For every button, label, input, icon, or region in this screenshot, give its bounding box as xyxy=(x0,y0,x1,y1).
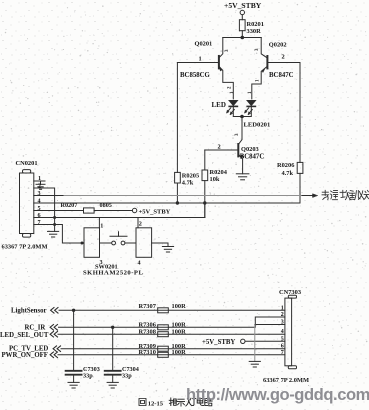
svg-text:Q0202: Q0202 xyxy=(269,42,287,49)
wire +5V to CN7303 pin5 xyxy=(245,340,285,342)
svg-text:33p: 33p xyxy=(83,373,93,380)
CN7303 pin 3 wire to ground xyxy=(255,324,285,326)
resistor R7309 100R xyxy=(158,346,169,351)
svg-text:PWR_ON_OFF: PWR_ON_OFF xyxy=(2,352,48,359)
svg-text:Q0203: Q0203 xyxy=(241,146,259,153)
svg-text:RC_IR: RC_IR xyxy=(25,324,46,331)
connector CN0201 xyxy=(16,160,38,237)
node junction below R0201 xyxy=(241,36,245,40)
svg-text:330R: 330R xyxy=(247,28,262,35)
node R0205 to pin4 xyxy=(176,201,179,204)
svg-text:6: 6 xyxy=(281,344,284,350)
svg-text:http://www.go-gddq.com: http://www.go-gddq.com xyxy=(186,385,369,404)
svg-text:2: 2 xyxy=(139,221,142,228)
svg-text:1: 1 xyxy=(281,305,284,311)
svg-text:4: 4 xyxy=(281,329,284,335)
svg-text:R0204: R0204 xyxy=(210,169,228,176)
power terminal +5V_STBY xyxy=(240,10,244,14)
svg-text:R0206: R0206 xyxy=(277,162,295,169)
svg-text:R0207: R0207 xyxy=(61,202,78,209)
transistor Q0203 BC847C (NPN) xyxy=(238,144,264,174)
svg-text:BC858CG: BC858CG xyxy=(180,72,211,79)
svg-text:R7310: R7310 xyxy=(139,349,156,356)
CN0201 pin 1 stub xyxy=(34,180,45,182)
svg-text:63367 7P 2.0MM: 63367 7P 2.0MM xyxy=(263,377,309,384)
svg-text:100R: 100R xyxy=(172,321,187,328)
ground below C7303 xyxy=(68,382,79,388)
ground at CN0201 pin 1 xyxy=(36,181,45,189)
node pin7 on ground rail xyxy=(53,223,56,226)
svg-text:Q0201: Q0201 xyxy=(195,41,213,48)
wire base Q0202, pin 2 xyxy=(267,62,300,64)
svg-text:4.7k: 4.7k xyxy=(282,170,294,177)
svg-text:2: 2 xyxy=(218,143,221,150)
svg-text:+5V_STBY: +5V_STBY xyxy=(202,339,235,346)
wire R0201 to node xyxy=(241,31,243,38)
resistor R0204 10k xyxy=(204,150,206,170)
node at switch pin1 side xyxy=(81,242,84,245)
capacitor C7304 33p xyxy=(105,327,139,382)
svg-text:R7307: R7307 xyxy=(139,303,157,310)
wire LED_SEL_OUT line xyxy=(58,333,285,335)
node R0204 to pin4 xyxy=(203,201,206,204)
svg-text:LED: LED xyxy=(212,101,226,109)
wire RC_IR line xyxy=(59,317,285,327)
svg-text:100R: 100R xyxy=(172,303,187,310)
transistor Q0201 BC858CG (PNP) xyxy=(180,38,233,99)
svg-text:R7306: R7306 xyxy=(139,321,157,328)
svg-text:2: 2 xyxy=(281,312,284,318)
svg-text:100R: 100R xyxy=(172,328,187,335)
node pin6 on ground rail xyxy=(53,216,56,219)
resistor R7308 100R xyxy=(158,332,169,337)
svg-text:R7308: R7308 xyxy=(139,328,156,335)
svg-text:10k: 10k xyxy=(210,176,220,183)
svg-text:BC847C: BC847C xyxy=(240,153,265,160)
wire PC_TV_LED line xyxy=(61,348,285,350)
ground at CN0201 pin 2/6/7 xyxy=(48,231,59,237)
node LED cathodes join xyxy=(240,115,244,119)
svg-text:R0205: R0205 xyxy=(182,172,199,179)
svg-text:1: 1 xyxy=(100,222,103,229)
wire switch pin4 to ground xyxy=(152,243,168,247)
svg-text:5: 5 xyxy=(281,336,284,342)
wire terminal to R0201 xyxy=(241,15,243,20)
svg-text:7: 7 xyxy=(281,350,284,356)
svg-text:SKHHAM2520-PL: SKHHAM2520-PL xyxy=(83,270,143,277)
switch SW0201 body right (pins 2-4) xyxy=(136,228,152,257)
wire LightSensor line xyxy=(59,309,285,311)
svg-text:+5V_STBY: +5V_STBY xyxy=(224,1,262,10)
svg-text:0805: 0805 xyxy=(100,202,112,209)
resistor R0206 4.7k xyxy=(299,63,301,163)
svg-text:+5V_STBY: +5V_STBY xyxy=(139,208,171,215)
node C7304 tap xyxy=(111,326,114,329)
resistor R7307 100R xyxy=(158,308,169,313)
wire arrow to remote receiver xyxy=(302,195,315,197)
wire switch pin2 drop xyxy=(137,218,139,228)
switch contacts and plunger xyxy=(100,232,137,245)
ground below C7304 xyxy=(107,382,118,388)
resistor R0201 xyxy=(239,20,245,31)
svg-text:63367 7P 2.0MM: 63367 7P 2.0MM xyxy=(2,244,48,251)
svg-text:2: 2 xyxy=(282,54,285,61)
node C7303 tap xyxy=(72,309,75,312)
CN0201 pin 2 wire to ground rail xyxy=(34,188,55,231)
wire collector rail xyxy=(223,37,261,39)
capacitor C7303 33p xyxy=(66,310,100,382)
resistor R7310 100R xyxy=(158,352,169,357)
svg-text:2: 2 xyxy=(38,182,41,189)
svg-text:4.7k: 4.7k xyxy=(182,179,194,186)
stub switch pin1 to pin6 line xyxy=(98,218,100,228)
svg-text:LED0201: LED0201 xyxy=(244,122,271,129)
wire LED node to Q0203 collector xyxy=(238,117,242,145)
svg-text:LED_SEL_OUT: LED_SEL_OUT xyxy=(0,332,49,339)
wire base Q0203, pin 2 xyxy=(205,149,239,151)
svg-text:1: 1 xyxy=(199,56,202,63)
resistor R7306 100R xyxy=(158,325,169,330)
resistor R0207 0805 xyxy=(84,208,95,213)
ground at switch xyxy=(162,247,173,253)
caption: tu 12-15 zhishideng dianlu xyxy=(139,399,146,406)
svg-text:R0201: R0201 xyxy=(247,21,264,28)
switch SW0201 body left (pins 1-3) xyxy=(84,228,100,257)
svg-text:4: 4 xyxy=(138,260,141,267)
wire PWR_ON_OFF line xyxy=(58,354,285,356)
svg-text:LightSensor: LightSensor xyxy=(11,307,47,314)
wire base Q0201, pin 1 xyxy=(177,62,219,64)
label: qu yaokong jieshoutou (to remote receiver) xyxy=(322,190,369,200)
svg-text:BC847C: BC847C xyxy=(269,72,294,79)
LED left half of LED0201 xyxy=(227,91,242,117)
svg-text:100R: 100R xyxy=(172,349,187,356)
ground below CN7303 xyxy=(249,361,260,367)
transistor Q0202 BC847C (NPN) xyxy=(252,38,294,99)
svg-text:CN0201: CN0201 xyxy=(16,160,38,167)
connector CN7303 xyxy=(279,289,301,369)
svg-text:12-15: 12-15 xyxy=(148,401,164,408)
ground below Q0203 xyxy=(236,174,249,180)
LED right half of LED0201 xyxy=(242,91,256,117)
terminal +5V_STBY (mid) xyxy=(132,208,136,212)
svg-text:33p: 33p xyxy=(122,373,132,380)
resistor R0205 4.7k xyxy=(176,63,178,173)
